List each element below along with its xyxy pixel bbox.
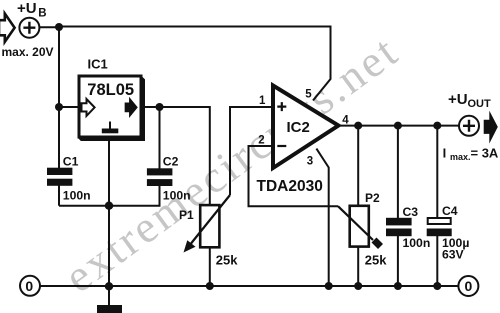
ground symbol — [97, 305, 122, 313]
svg-text:100n: 100n — [63, 189, 91, 203]
svg-text:63V: 63V — [442, 248, 465, 262]
svg-text:OUT: OUT — [468, 98, 492, 110]
IC1 internal ground — [109, 122, 111, 129]
wire P1 wiper to pin 1 — [230, 107, 273, 195]
svg-text:C3: C3 — [403, 205, 419, 219]
svg-text:0: 0 — [25, 278, 33, 294]
svg-text:100n: 100n — [163, 189, 191, 203]
svg-text:max.: max. — [450, 152, 471, 162]
wire top rail — [40, 27, 331, 101]
wire output line — [339, 125, 460, 127]
svg-text:100n: 100n — [403, 236, 431, 250]
P2 wiper arrow — [338, 206, 373, 240]
wire pin 3 to ground rail — [316, 149, 328, 286]
svg-text:25k: 25k — [365, 253, 387, 268]
output arrow (filled) — [484, 111, 498, 144]
wire C4 top — [436, 126, 438, 218]
wire center ground drop — [108, 206, 110, 305]
node junction top-left — [55, 23, 63, 31]
wire C3 bottom — [397, 236, 399, 286]
node P2 bottom junction — [354, 282, 362, 290]
wire C3 top — [397, 126, 399, 218]
svg-text:B: B — [38, 7, 46, 19]
node P2 top junction — [354, 122, 362, 130]
svg-text:P1: P1 — [179, 208, 194, 222]
wire IC1 input — [59, 106, 79, 108]
capacitor C4 (electrolytic) — [428, 218, 451, 224]
IC1 input arrow (hollow) — [82, 99, 95, 116]
IC1 output arrow (filled) — [125, 99, 136, 116]
capacitor C2 — [147, 168, 173, 175]
wire P2 bottom — [357, 247, 359, 286]
regulator IC1 box — [79, 76, 144, 140]
input arrow (hollow) — [0, 14, 15, 42]
svg-text:IC2: IC2 — [287, 119, 310, 136]
potentiometer P2 — [350, 206, 369, 247]
wire pin 2 feedback — [249, 146, 339, 206]
wire P2 top — [357, 126, 359, 206]
wire +UB vertical to C1 — [58, 27, 60, 169]
node pin3 rail junction — [325, 282, 333, 290]
svg-text:P2: P2 — [365, 191, 380, 205]
wire P1 bottom — [209, 247, 211, 286]
capacitor C1 — [47, 168, 72, 175]
node C4 top junction — [433, 122, 441, 130]
potentiometer P1 — [200, 205, 219, 247]
wire C1 bottom — [58, 186, 60, 206]
wire C1-C2 bottom bus — [59, 186, 160, 206]
svg-text:I: I — [443, 146, 447, 161]
node C4 bottom junction — [433, 282, 441, 290]
node C3 top junction — [394, 122, 402, 130]
plus input mark — [277, 102, 286, 111]
node C3 bottom junction — [394, 282, 402, 290]
svg-text:4: 4 — [342, 115, 349, 127]
node IC1 input junction — [55, 103, 63, 111]
svg-text:max. 20V: max. 20V — [2, 45, 54, 59]
svg-text:C2: C2 — [163, 154, 179, 168]
svg-text:= 3A: = 3A — [471, 146, 499, 161]
wire C4 bottom — [436, 236, 438, 286]
svg-text:25k: 25k — [216, 253, 238, 268]
svg-text:+U: +U — [17, 0, 37, 17]
svg-text:1: 1 — [259, 95, 266, 107]
svg-text:C1: C1 — [63, 154, 79, 168]
svg-text:3: 3 — [307, 155, 313, 167]
svg-text:+U: +U — [448, 91, 468, 108]
terminal +UB — [19, 18, 39, 38]
node C2 top junction — [156, 103, 164, 111]
P1 wiper arrow — [191, 195, 230, 244]
minus input mark — [277, 145, 286, 147]
svg-text:IC1: IC1 — [88, 56, 108, 71]
svg-text:2: 2 — [258, 134, 264, 146]
node ground rail junction — [105, 282, 113, 290]
svg-text:5: 5 — [305, 89, 312, 101]
svg-text:C4: C4 — [442, 204, 458, 218]
terminal ground left — [20, 276, 40, 296]
terminal ground right — [458, 276, 478, 296]
node C1-C2 bottom junction — [105, 202, 113, 210]
svg-text:TDA2030: TDA2030 — [257, 178, 323, 195]
wire IC1 output to P1 top — [141, 107, 210, 206]
wire C2 top — [159, 107, 161, 169]
capacitor C3 — [386, 218, 412, 226]
svg-text:78L05: 78L05 — [87, 81, 134, 99]
terminal +UOUT — [459, 116, 479, 136]
wire bottom rail — [40, 285, 459, 287]
wire IC1 ground pin — [108, 138, 110, 206]
op-amp IC2 — [273, 86, 339, 169]
svg-text:0: 0 — [465, 278, 473, 294]
node P1 bottom junction — [206, 282, 214, 290]
watermark extremecircuits.net — [55, 24, 409, 303]
